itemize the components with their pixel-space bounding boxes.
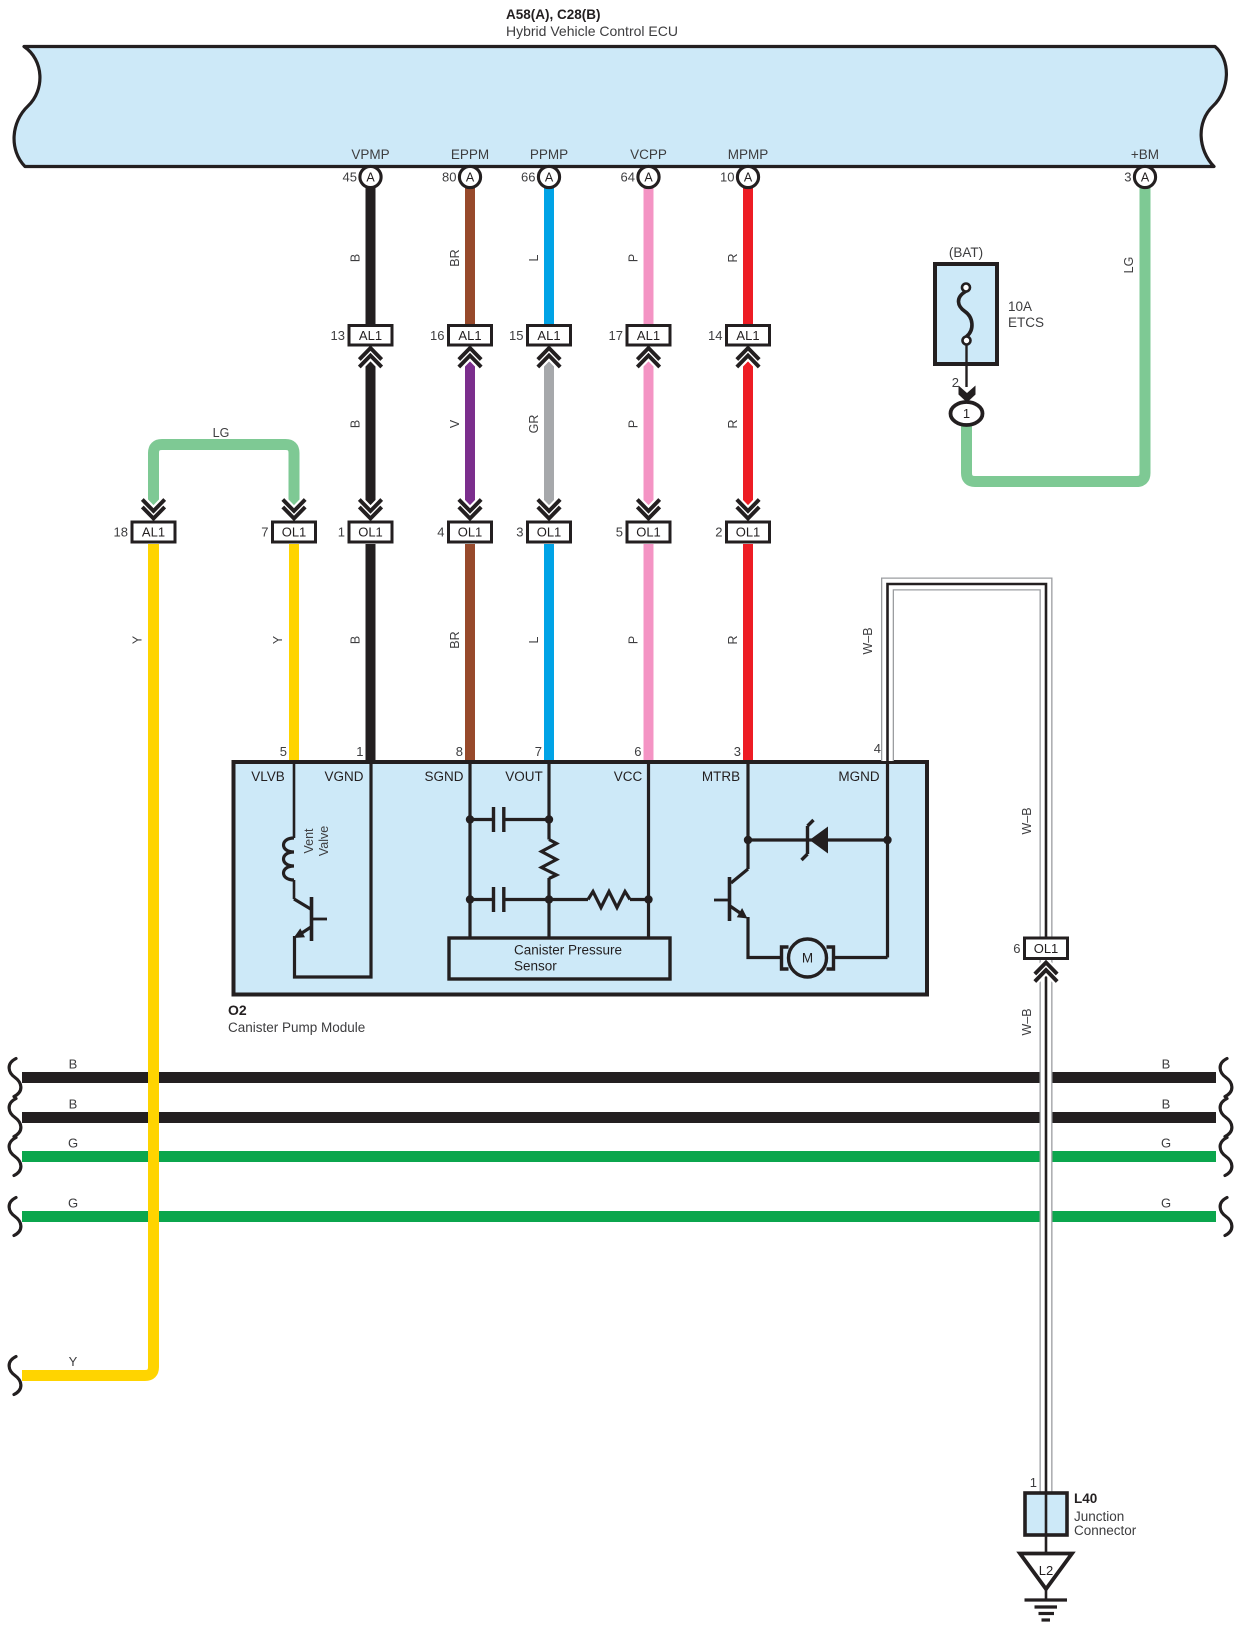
svg-text:Canister Pump Module: Canister Pump Module (228, 1020, 365, 1035)
svg-text:5: 5 (280, 744, 287, 759)
wire label W-B (upper left) (861, 627, 875, 654)
ECU pin label EPPM (451, 147, 489, 162)
svg-text:AL1: AL1 (736, 328, 759, 343)
svg-text:A: A (366, 171, 375, 185)
svg-text:8: 8 (456, 744, 463, 759)
svg-text:3: 3 (1124, 170, 1131, 185)
vent valve return wire to VGND (295, 763, 372, 977)
vent valve coil L (VLVB) (284, 763, 295, 899)
ECU pin label MPMP (728, 147, 769, 162)
zener diode symbol (802, 820, 829, 860)
svg-text:13: 13 (331, 328, 345, 343)
svg-text:OL1: OL1 (537, 525, 562, 540)
bus wire G right break (1220, 1198, 1232, 1236)
connector 1 OL1 chevrons (359, 500, 381, 519)
module pin number 4 (874, 741, 881, 756)
svg-text:BR: BR (448, 249, 462, 266)
svg-text:L: L (527, 636, 541, 643)
svg-text:V: V (448, 419, 462, 428)
connector 7 OL1 chevrons (283, 500, 305, 519)
svg-text:A: A (466, 171, 475, 185)
connector 7 OL1 (261, 522, 315, 542)
wire W-B from module MGND pin 4 up over to right and down to 6 OL1 (888, 584, 1047, 937)
canister pump module O2 box (234, 762, 928, 995)
svg-text:(BAT): (BAT) (949, 245, 983, 260)
resistor R vertical (VOUT) (542, 840, 557, 879)
bus wire B left break (9, 1099, 21, 1137)
connector 2 OL1 (715, 522, 769, 542)
connector 5 OL1 (616, 522, 670, 542)
svg-text:4: 4 (437, 525, 444, 540)
svg-text:OL1: OL1 (282, 525, 307, 540)
module terminal label VOUT (505, 769, 543, 784)
svg-text:1: 1 (963, 406, 970, 421)
junction connector L40 box (1025, 1493, 1067, 1535)
svg-text:G: G (68, 1136, 78, 1151)
wire BR from ECU pin 80 to AL1 (465, 186, 475, 327)
wire label R (middle) (726, 419, 740, 428)
ECU pin circle A pin 45 (343, 166, 382, 187)
resistor R horizontal (VOUT-VCC) (549, 892, 649, 908)
svg-text:MGND: MGND (838, 769, 879, 784)
svg-text:P: P (627, 254, 641, 262)
wire label BR (448, 249, 462, 266)
wire label LG (+BM column) (1122, 257, 1136, 274)
bus wire G horizontal y=1156.5 (22, 1151, 1216, 1162)
svg-text:Valve: Valve (317, 826, 331, 856)
connector 17 AL1 (609, 326, 670, 346)
bus wire B horizontal y=1117.5 (22, 1112, 1216, 1123)
Hybrid Vehicle Control ECU block A58(A)/C28(B) (14, 47, 1226, 167)
svg-text:B: B (69, 1097, 78, 1112)
wire Y from 18 AL1 down to bottom-left break (22, 544, 154, 1376)
svg-text:LG: LG (213, 426, 230, 440)
svg-text:66: 66 (521, 170, 535, 185)
svg-text:AL1: AL1 (458, 328, 481, 343)
ECU pin circle A pin 80 (442, 166, 481, 187)
svg-text:AL1: AL1 (537, 328, 560, 343)
svg-text:L2: L2 (1039, 1563, 1053, 1578)
wire B between AL1 and OL1 (366, 349, 376, 517)
canister pressure sensor label (514, 943, 622, 974)
fuse rating label (1008, 299, 1044, 330)
svg-text:W–B: W–B (861, 627, 875, 654)
svg-text:Sensor: Sensor (514, 959, 557, 974)
wire label P (627, 254, 641, 262)
module pin number 3 (734, 744, 741, 759)
svg-text:AL1: AL1 (142, 525, 165, 540)
svg-text:OL1: OL1 (358, 525, 383, 540)
wire label B (lower) (349, 636, 363, 644)
module pin number 7 (535, 744, 542, 759)
svg-text:Canister Pressure: Canister Pressure (514, 943, 622, 958)
wire label B (349, 254, 363, 262)
SGND internal line (468, 763, 471, 937)
svg-text:14: 14 (708, 328, 722, 343)
svg-text:B: B (349, 420, 363, 428)
connector 18 AL1 (114, 522, 175, 542)
inline connector circle 1 (951, 402, 983, 425)
motor transistor emitter arrow (730, 906, 748, 919)
fuse pin number 2 (952, 375, 959, 390)
MGND internal line (886, 763, 889, 958)
wire label B (middle) (349, 420, 363, 428)
wire Y from 7 OL1 to module pin 5 (289, 544, 299, 763)
connector 16 AL1 chevrons (459, 348, 481, 367)
bus wire B right break (1220, 1099, 1232, 1137)
connector 14 AL1 (708, 326, 769, 346)
connector 4 OL1 (437, 522, 491, 542)
ground triangle L2 (1020, 1554, 1072, 1590)
wire label GR (middle) (527, 415, 541, 434)
wire label Y (bottom) (69, 1354, 78, 1369)
bus label B left (69, 1057, 78, 1072)
svg-text:MTRB: MTRB (702, 769, 740, 784)
svg-text:6: 6 (634, 744, 641, 759)
svg-text:45: 45 (343, 170, 357, 185)
svg-text:1: 1 (1030, 1475, 1037, 1490)
L40 label (1074, 1491, 1137, 1538)
bus label G right (1161, 1196, 1171, 1211)
svg-text:A: A (1141, 171, 1150, 185)
wire BR from OL1 to module pin 8 (465, 544, 475, 763)
svg-text:Y: Y (271, 635, 285, 644)
ECU pin circle A pin 66 (521, 166, 560, 187)
wire P between AL1 and OL1 (644, 349, 654, 517)
svg-text:VLVB: VLVB (251, 769, 285, 784)
svg-text:B: B (1162, 1057, 1171, 1072)
wire L from OL1 to module pin 7 (544, 544, 554, 763)
module designator O2 label (228, 1002, 365, 1035)
svg-text:BR: BR (448, 631, 462, 648)
module terminal label VGND (324, 769, 363, 784)
bus label B right (1162, 1097, 1171, 1112)
bus label G right (1161, 1136, 1171, 1151)
wire label W-B (right lower) (1020, 1008, 1034, 1035)
connector 18 AL1 chevrons (142, 500, 164, 519)
svg-text:M: M (802, 951, 813, 966)
svg-text:G: G (68, 1196, 78, 1211)
wire R from OL1 to module pin 3 (743, 544, 753, 763)
ECU pin label PPMP (530, 147, 568, 162)
svg-text:A58(A), C28(B): A58(A), C28(B) (506, 7, 601, 22)
svg-text:17: 17 (609, 328, 623, 343)
svg-text:5: 5 (616, 525, 623, 540)
ground symbol (1025, 1589, 1068, 1620)
svg-text:G: G (1161, 1136, 1171, 1151)
vent valve label (302, 826, 331, 856)
wire LG jumper from 18 AL1 to 7 OL1 (154, 445, 295, 517)
wire label Y (right yellow) (271, 635, 285, 644)
svg-text:R: R (726, 253, 740, 262)
svg-text:80: 80 (442, 170, 456, 185)
connector 6 OL1 chevrons (1035, 963, 1057, 982)
svg-text:B: B (69, 1057, 78, 1072)
svg-text:Connector: Connector (1074, 1523, 1137, 1538)
svg-text:EPPM: EPPM (451, 147, 489, 162)
module pin number 8 (456, 744, 463, 759)
ECU pin label VPMP (351, 147, 389, 162)
module terminal label MTRB (702, 769, 740, 784)
wire label Y (vertical) (131, 635, 145, 644)
svg-text:MPMP: MPMP (728, 147, 769, 162)
ECU pin circle A pin 64 (621, 166, 660, 187)
bus label G left (68, 1136, 78, 1151)
svg-text:AL1: AL1 (637, 328, 660, 343)
svg-text:7: 7 (261, 525, 268, 540)
connector 5 OL1 chevrons (637, 500, 659, 519)
bus wire G horizontal y=1216.5 (22, 1211, 1216, 1222)
svg-text:Y: Y (131, 635, 145, 644)
connector 15 AL1 chevrons (538, 348, 560, 367)
svg-text:R: R (726, 419, 740, 428)
svg-text:OL1: OL1 (636, 525, 661, 540)
svg-text:B: B (349, 636, 363, 644)
svg-text:A: A (545, 171, 554, 185)
connector 2 OL1 chevrons (737, 500, 759, 519)
wire B from ECU pin 45 to AL1 (366, 186, 376, 327)
svg-text:VPMP: VPMP (351, 147, 389, 162)
connector 4 OL1 chevrons (459, 500, 481, 519)
svg-text:VCC: VCC (614, 769, 643, 784)
svg-text:1: 1 (356, 744, 363, 759)
canister pressure sensor box (449, 938, 670, 979)
wire label P (middle) (627, 420, 641, 428)
module pin number 5 (280, 744, 287, 759)
svg-text:L40: L40 (1074, 1491, 1097, 1506)
connector 1 OL1 (338, 522, 392, 542)
svg-text:64: 64 (621, 170, 635, 185)
fuse box 10A ETCS (935, 264, 997, 364)
connector 3 OL1 (516, 522, 570, 542)
svg-text:R: R (726, 635, 740, 644)
VCC internal line (647, 763, 650, 937)
wire label W-B (right upper) (1020, 807, 1034, 834)
capacitor C upper plates (470, 807, 549, 832)
svg-text:AL1: AL1 (359, 328, 382, 343)
wire label L (lower) (527, 636, 541, 643)
svg-text:10A: 10A (1008, 299, 1032, 314)
ECU pin circle A pin 3 (1124, 166, 1155, 187)
svg-text:O2: O2 (228, 1002, 247, 1018)
svg-text:6: 6 (1013, 941, 1020, 956)
bus label G left (68, 1196, 78, 1211)
svg-text:+BM: +BM (1131, 147, 1159, 162)
wire P from OL1 to module pin 6 (644, 544, 654, 763)
motor M (782, 939, 834, 977)
flyback zener diode line (748, 838, 888, 841)
junction dots upper cap row (466, 815, 553, 823)
wire R between AL1 and OL1 (743, 349, 753, 517)
wire LG from ECU pin 3 (+BM) down and left to fuse output (967, 186, 1146, 482)
svg-text:18: 18 (114, 525, 128, 540)
svg-text:VCPP: VCPP (630, 147, 667, 162)
fuse output pin 2 wire (965, 345, 967, 388)
svg-text:P: P (627, 420, 641, 428)
svg-text:3: 3 (516, 525, 523, 540)
connector 13 AL1 (331, 326, 392, 346)
bus wire G left break (9, 1138, 21, 1176)
wire B from OL1 to module pin 1 (366, 544, 376, 763)
wire label R (lower) (726, 635, 740, 644)
capacitor C lower plates (470, 887, 549, 912)
wire label BR (lower) (448, 631, 462, 648)
connector 6 OL1 (1013, 938, 1067, 959)
connector arrow (male) (959, 386, 976, 403)
svg-text:PPMP: PPMP (530, 147, 568, 162)
bus label B right (1162, 1057, 1171, 1072)
svg-text:ETCS: ETCS (1008, 315, 1044, 330)
fuse element symbol (958, 284, 971, 345)
svg-text:Y: Y (69, 1354, 78, 1369)
bus wire B right break (1220, 1059, 1232, 1097)
ECU pin label +BM (1131, 147, 1159, 162)
ECU pin circle A pin 10 (720, 166, 759, 187)
motor transistor Q (collector/bar/base) (714, 869, 748, 921)
ECU pin label VCPP (630, 147, 667, 162)
svg-text:1: 1 (338, 525, 345, 540)
module terminal label MGND (838, 769, 879, 784)
wire label R (726, 253, 740, 262)
svg-text:15: 15 (509, 328, 523, 343)
wire W-B from 6 OL1 down to L40 (1040, 960, 1053, 1494)
svg-text:3: 3 (734, 744, 741, 759)
svg-text:Junction: Junction (1074, 1509, 1124, 1524)
svg-text:W–B: W–B (1020, 807, 1034, 834)
connector 15 AL1 (509, 326, 570, 346)
svg-text:G: G (1161, 1196, 1171, 1211)
svg-text:B: B (1162, 1097, 1171, 1112)
svg-text:LG: LG (1122, 257, 1136, 274)
svg-text:OL1: OL1 (458, 525, 483, 540)
bus wire B horizontal y=1077.5 (22, 1072, 1216, 1083)
MTRB internal line (746, 763, 749, 869)
wire label LG (jumper) (213, 426, 230, 440)
VOUT internal line upper (547, 763, 550, 840)
wire label P (lower) (627, 636, 641, 644)
svg-text:B: B (349, 254, 363, 262)
svg-text:2: 2 (715, 525, 722, 540)
vent valve transistor Q (collector/bar/base) (294, 897, 327, 941)
svg-text:VGND: VGND (324, 769, 363, 784)
bus wire G right break (1220, 1138, 1232, 1176)
module terminal label VLVB (251, 769, 285, 784)
svg-text:L: L (527, 254, 541, 261)
wire label L (527, 254, 541, 261)
connector 16 AL1 (430, 326, 491, 346)
wire through L40 to ground (1045, 1493, 1048, 1554)
L40 pin number 1 (1030, 1475, 1037, 1490)
module terminal label SGND (424, 769, 463, 784)
ECU title label (506, 7, 678, 39)
svg-text:2: 2 (952, 375, 959, 390)
wire GR between AL1 and OL1 (544, 349, 554, 517)
svg-text:P: P (627, 636, 641, 644)
module pin number 1 (356, 744, 363, 759)
svg-text:10: 10 (720, 170, 734, 185)
svg-text:GR: GR (527, 415, 541, 434)
connector 3 OL1 chevrons (538, 500, 560, 519)
svg-text:W–B: W–B (1020, 1008, 1034, 1035)
wire label V (middle) (448, 419, 462, 428)
svg-text:7: 7 (535, 744, 542, 759)
VOUT internal line lower (547, 878, 550, 937)
wire R from ECU pin 10 to AL1 (743, 186, 753, 327)
wire transistor to motor (748, 917, 781, 958)
svg-text:4: 4 (874, 741, 881, 756)
fuse label (BAT) (949, 245, 983, 260)
svg-text:A: A (744, 171, 753, 185)
svg-text:16: 16 (430, 328, 444, 343)
bottom yellow wire break (9, 1357, 21, 1395)
svg-text:VOUT: VOUT (505, 769, 543, 784)
svg-text:Vent: Vent (302, 828, 316, 854)
svg-text:A: A (644, 171, 653, 185)
wire L from ECU pin 66 to AL1 (544, 186, 554, 327)
connector 17 AL1 chevrons (637, 348, 659, 367)
vent valve transistor emitter arrow (294, 927, 312, 938)
svg-text:OL1: OL1 (736, 525, 761, 540)
svg-text:OL1: OL1 (1034, 941, 1059, 956)
wire P from ECU pin 64 to AL1 (644, 186, 654, 327)
junction dots lower cap row (466, 895, 653, 903)
svg-text:SGND: SGND (424, 769, 463, 784)
bus wire B left break (9, 1059, 21, 1097)
wire motor to MGND (834, 956, 888, 959)
bus wire G left break (9, 1198, 21, 1236)
module terminal label VCC (614, 769, 643, 784)
wire V between AL1 and OL1 (465, 349, 475, 517)
junction dots motor row (744, 836, 892, 844)
module pin number 6 (634, 744, 641, 759)
svg-text:Hybrid Vehicle Control ECU: Hybrid Vehicle Control ECU (506, 23, 678, 39)
connector 13 AL1 chevrons (359, 348, 381, 367)
bus label B left (69, 1097, 78, 1112)
connector 14 AL1 chevrons (737, 348, 759, 367)
